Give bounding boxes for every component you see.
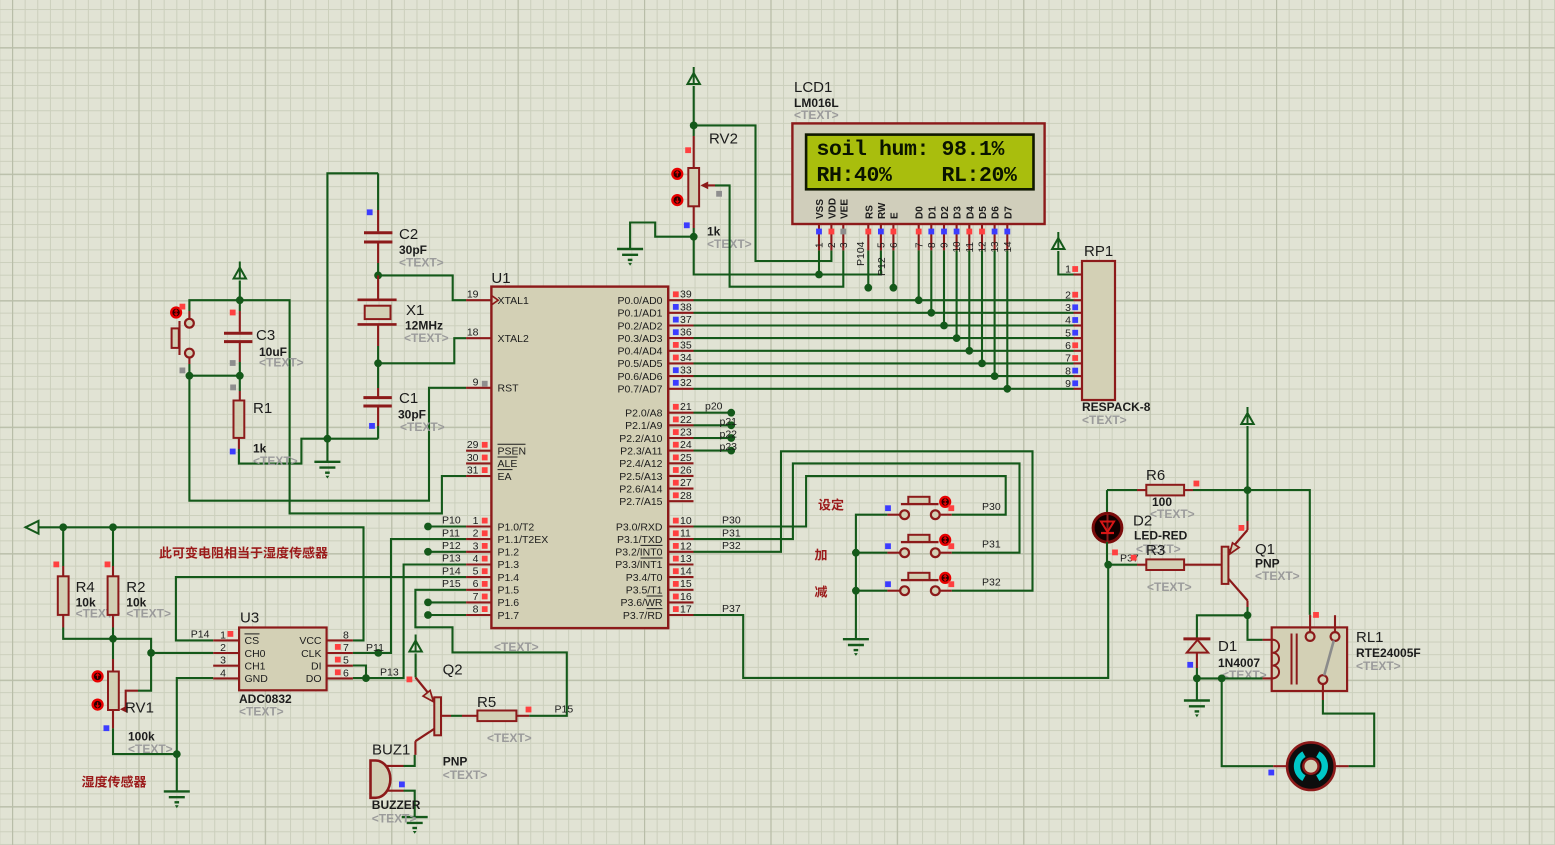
resistor R2 10k: [108, 576, 119, 615]
wire LCD D2 drop: [943, 250, 945, 325]
svg-text:X1: X1: [406, 302, 424, 319]
U1 pin 19 XTAL1: [466, 299, 491, 301]
svg-text:RS: RS: [864, 205, 875, 219]
svg-text:6: 6: [473, 578, 479, 590]
terminal: left arrow input: [26, 521, 39, 534]
U3 pin 7 CLK: [327, 652, 353, 654]
svg-text:37: 37: [680, 314, 692, 326]
RP1 pin 2: [1074, 299, 1083, 301]
svg-text:PSEN: PSEN: [498, 446, 527, 458]
svg-text:RH:40% RL:20%: RH:40% RL:20%: [817, 164, 1018, 188]
svg-text:3: 3: [220, 655, 226, 667]
junction: C3 bottom / R1 top: [236, 372, 244, 380]
svg-text:P1.5: P1.5: [498, 585, 520, 597]
svg-text:U3: U3: [240, 610, 259, 627]
svg-text:VCC: VCC: [299, 635, 322, 647]
svg-text:P0.4/AD4: P0.4/AD4: [618, 346, 663, 358]
svg-text:35: 35: [680, 339, 692, 351]
power: VCC arrow right: [1247, 407, 1249, 413]
relay contact pins: [1309, 615, 1311, 632]
svg-text:VDD: VDD: [827, 198, 838, 219]
svg-text:D2: D2: [940, 206, 951, 219]
wire LCD D0 drop: [918, 250, 920, 300]
svg-text:22: 22: [680, 414, 692, 426]
svg-text:2: 2: [827, 242, 838, 248]
U1 pin 34 P0.5/AD5: [668, 362, 693, 364]
wire RV1 bottom to ground node: [112, 710, 114, 728]
LCD pin 10 D3: [956, 224, 958, 250]
crystal X1 12MHz: [377, 275, 379, 298]
svg-text:6: 6: [343, 667, 349, 679]
junction: motor branch: [1218, 675, 1226, 683]
U1 pin 18 XTAL2: [466, 337, 491, 339]
wire P0.7 bus row: [694, 388, 1074, 390]
svg-text:P1.2: P1.2: [498, 547, 520, 559]
motor: [1273, 765, 1287, 767]
wire VSS drop: [818, 250, 820, 274]
svg-text:LCD1: LCD1: [794, 79, 832, 96]
U1 pin 26 P2.5/A13: [668, 475, 693, 477]
svg-text:38: 38: [680, 301, 692, 313]
svg-text:7: 7: [1065, 353, 1071, 365]
svg-text:DO: DO: [306, 673, 322, 685]
LCD screen: [806, 135, 1033, 190]
LCD pin 4 RS: [867, 224, 869, 250]
wire RV2 ground zigzag: [630, 223, 694, 250]
wire P1.0 stub (net P10): [428, 525, 466, 527]
U1 pin 30 ALE: [466, 462, 491, 464]
svg-text:RV2: RV2: [709, 131, 738, 148]
svg-text:<TEXT>: <TEXT>: [400, 420, 445, 434]
svg-text:RW: RW: [877, 202, 888, 219]
wire net P37: [694, 565, 1109, 678]
svg-text:4: 4: [473, 553, 479, 565]
U3 pin 4 GND: [213, 677, 239, 679]
wire VCC node down to C3: [239, 300, 241, 311]
svg-text:31: 31: [467, 465, 479, 477]
wire P0.5 bus row: [694, 362, 1074, 364]
svg-text:P30: P30: [982, 501, 1001, 513]
U1 pin 29 PSEN: [466, 450, 491, 452]
svg-text:8: 8: [343, 629, 349, 641]
svg-text:9: 9: [940, 242, 951, 248]
RP1 pin 7: [1074, 362, 1083, 364]
svg-text:P0.3/AD3: P0.3/AD3: [618, 333, 663, 345]
svg-text:5: 5: [473, 566, 479, 578]
wire D1 to coil bottom: [1197, 677, 1263, 679]
U3 pin 8 VCC: [327, 639, 353, 641]
svg-text:P32: P32: [722, 540, 741, 552]
ground: buzzer: [402, 817, 428, 828]
svg-text:P0.2/AD2: P0.2/AD2: [618, 320, 663, 332]
ground: buttons: [843, 639, 869, 650]
svg-text:12: 12: [680, 540, 692, 552]
wire net P14: U1 P1.4 to U3 CS: [176, 577, 466, 640]
svg-text:P3.0/RXD: P3.0/RXD: [616, 521, 663, 533]
svg-text:D0: D0: [915, 206, 926, 219]
transistor Q2 PNP: [416, 678, 435, 701]
label 减: [815, 585, 827, 597]
wire R2 top lead: [112, 527, 114, 566]
wire P1.2 stub (net P12): [428, 551, 466, 553]
svg-text:P13: P13: [442, 553, 461, 565]
svg-text:C2: C2: [399, 226, 418, 243]
svg-text:R6: R6: [1146, 467, 1165, 484]
svg-text:XTAL2: XTAL2: [498, 333, 529, 345]
wire net P31 loop: [694, 463, 1020, 552]
svg-text:3: 3: [1065, 302, 1071, 314]
svg-text:3: 3: [839, 242, 850, 248]
relay blade: [1324, 641, 1334, 676]
svg-text:EA: EA: [498, 471, 512, 483]
svg-text:<TEXT>: <TEXT>: [1150, 507, 1195, 521]
potentiometer RV2 1k: [693, 125, 695, 136]
svg-text:<TEXT>: <TEXT>: [1255, 569, 1300, 583]
U1 pin 23 P2.2/A10: [668, 437, 693, 439]
svg-text:P3.2/INT0: P3.2/INT0: [615, 547, 662, 559]
svg-text:5: 5: [1065, 327, 1071, 339]
wire net p23 stub: [694, 450, 732, 452]
wire collector to relay coil top: [1248, 615, 1263, 640]
svg-text:R1: R1: [253, 400, 272, 417]
svg-text:P32: P32: [982, 577, 1001, 589]
svg-text:soil hum: 98.1%: soil hum: 98.1%: [817, 138, 1005, 162]
U1 pin 3 P1.2: [466, 551, 491, 553]
adc U3 ADC0832 body: [239, 628, 327, 691]
svg-text:26: 26: [680, 464, 692, 476]
svg-text:P0.0/AD0: P0.0/AD0: [618, 295, 663, 307]
U1 pin 2 P1.1/T2EX: [466, 538, 491, 540]
svg-text:P1.3: P1.3: [498, 559, 520, 571]
LCD pin 1 VSS: [818, 224, 820, 250]
ground: D1: [1196, 678, 1198, 700]
svg-text:9: 9: [473, 376, 479, 388]
potentiometer RV1 100k: [108, 672, 119, 711]
svg-text:DI: DI: [311, 661, 322, 673]
U1 pin 27 P2.6/A14: [668, 488, 693, 490]
svg-text:RV1: RV1: [125, 700, 154, 717]
wire XTAL2: [378, 338, 466, 363]
wire LCD D5 drop: [981, 250, 983, 363]
wire VCC node to EA pin: [240, 300, 466, 513]
svg-text:R5: R5: [477, 694, 496, 711]
wire net P15: U1 P1.5 to R5: [415, 590, 566, 716]
RP1 pin 4: [1074, 324, 1083, 326]
U1 pin 5 P1.4: [466, 576, 491, 578]
svg-text:D5: D5: [978, 206, 989, 219]
svg-text:34: 34: [680, 352, 692, 364]
svg-text:P12: P12: [442, 540, 461, 552]
U1 pin 32 P0.7/AD7: [668, 388, 693, 390]
svg-text:P31: P31: [982, 539, 1001, 551]
svg-text:<TEXT>: <TEXT>: [239, 705, 284, 719]
junction: R4/R2/RV1 node: [109, 635, 117, 643]
svg-text:VSS: VSS: [815, 199, 826, 219]
svg-text:<TEXT>: <TEXT>: [399, 256, 444, 270]
svg-text:P3.6/WR: P3.6/WR: [620, 597, 662, 609]
svg-text:D4: D4: [965, 206, 976, 219]
U1 pin 33 P0.6/AD6: [668, 375, 693, 377]
wire RS stub (net P10): [867, 250, 869, 287]
junction: C2/X1/XTAL1: [374, 272, 382, 280]
svg-text:D7: D7: [1003, 206, 1014, 219]
svg-text:CH0: CH0: [245, 648, 266, 660]
svg-text:P2.3/A11: P2.3/A11: [620, 445, 663, 457]
U1 pin 31 EA: [466, 475, 491, 477]
wire buttons left commons to ground: [856, 515, 888, 553]
svg-text:P2.2/A10: P2.2/A10: [619, 433, 662, 445]
svg-text:P15: P15: [555, 704, 574, 716]
switch: push button: [887, 552, 899, 554]
svg-text:RP1: RP1: [1084, 243, 1113, 260]
wire net P30 loop: [694, 476, 1006, 526]
U1 pin 28 P2.7/A15: [668, 500, 693, 502]
wire U3 GND down: [177, 678, 213, 754]
svg-text:P1.1/T2EX: P1.1/T2EX: [498, 534, 549, 546]
junction: DI/DO tie: [362, 674, 370, 682]
svg-text:1: 1: [1065, 264, 1071, 276]
svg-text:D3: D3: [953, 206, 964, 219]
resistor R5: [462, 715, 477, 717]
svg-text:23: 23: [680, 427, 692, 439]
power: VCC arrow for Q2: [415, 635, 417, 641]
U1 pin 4 P1.3: [466, 563, 491, 565]
svg-text:P3.1/TXD: P3.1/TXD: [617, 534, 663, 546]
svg-text:R4: R4: [76, 579, 95, 596]
junction: rail/R2: [109, 523, 117, 531]
wire RV1 top lead: [112, 639, 114, 659]
wire P0.6 bus row: [694, 375, 1074, 377]
relay RL1 RTE24005F body: [1272, 627, 1347, 691]
junction: RV2 top node: [690, 122, 698, 130]
svg-text:VEE: VEE: [839, 199, 850, 219]
svg-text:D6: D6: [991, 206, 1002, 219]
svg-text:29: 29: [467, 439, 479, 451]
svg-text:P2.4/A12: P2.4/A12: [619, 458, 662, 470]
svg-text:RL1: RL1: [1356, 629, 1384, 646]
U1 pin 16 P3.6/WR: [668, 601, 693, 603]
svg-text:<TEXT>: <TEXT>: [487, 731, 532, 745]
wire LCD D1 drop: [930, 250, 932, 312]
op-amp U1 body: 8051 MCU: [491, 287, 668, 628]
U1 pin 22 P2.1/A9: [668, 424, 693, 426]
U3 pin 3 CH1: [213, 665, 239, 667]
svg-text:XTAL1: XTAL1: [498, 295, 529, 307]
LCD pin 8 D1: [930, 224, 932, 250]
svg-text:CS: CS: [245, 635, 260, 647]
LCD pin 3 VEE: [842, 224, 844, 250]
U3 pin 6 DO: [327, 677, 353, 679]
wire net P13: U3 DO to U1 P1.3: [353, 565, 466, 679]
wire P0.1 bus row: [694, 312, 1074, 314]
resistor-pack RP1 RESPACK-8 body: [1082, 261, 1115, 400]
junction: D1 anode node: [1193, 675, 1201, 683]
svg-text:<TEXT>: <TEXT>: [372, 812, 417, 826]
junction: rail/R4: [59, 523, 67, 531]
wire P0.0 bus row: [694, 299, 1074, 301]
svg-text:P1.0/T2: P1.0/T2: [498, 521, 535, 533]
svg-text:7: 7: [473, 591, 479, 603]
svg-text:32: 32: [680, 377, 692, 389]
svg-text:18: 18: [467, 327, 479, 339]
svg-text:6: 6: [1065, 340, 1071, 352]
wire collector to D1: [1197, 615, 1248, 637]
resistor R6 100: [1107, 489, 1137, 491]
wire R2 bottom: [112, 615, 114, 628]
junction: VCC right rail: [1244, 486, 1252, 494]
U1 pin 8 P1.7: [466, 614, 491, 616]
U3 pin 2 CH0: [213, 652, 239, 654]
U1 pin 13 P3.3/INT1: [668, 563, 693, 565]
svg-text:RTE24005F: RTE24005F: [1356, 646, 1421, 660]
svg-text:PNP: PNP: [443, 755, 468, 769]
LCD pin 13 D6: [994, 224, 996, 250]
svg-text:E: E: [889, 212, 900, 219]
wire VCC to relay contact: [1248, 490, 1310, 615]
svg-text:P1.4: P1.4: [498, 572, 520, 584]
svg-text:39: 39: [680, 289, 692, 301]
junction: VSS node: [815, 271, 823, 279]
LCD pin 6 E: [892, 224, 894, 250]
svg-text:21: 21: [680, 401, 692, 413]
svg-text:P14: P14: [442, 565, 461, 577]
LCD pin 9 D2: [943, 224, 945, 250]
svg-text:36: 36: [680, 327, 692, 339]
svg-text:D1: D1: [1218, 638, 1237, 655]
svg-text:12: 12: [978, 241, 989, 253]
svg-text:p22: p22: [720, 429, 738, 441]
relay coil leads: [1263, 639, 1274, 641]
svg-text:p21: p21: [720, 416, 738, 428]
wire CH0 to U3: [151, 652, 213, 654]
svg-text:7: 7: [343, 642, 349, 654]
U1 pin 36 P0.3/AD3: [668, 337, 693, 339]
LCD pin 2 VDD: [830, 224, 832, 250]
svg-text:p23: p23: [720, 441, 738, 453]
svg-text:28: 28: [680, 490, 692, 502]
svg-text:P10: P10: [442, 515, 461, 527]
svg-text:33: 33: [680, 365, 692, 377]
LCD pin 11 D4: [968, 224, 970, 250]
U1 pin 12 P3.2/INT0: [668, 551, 693, 553]
svg-text:P11: P11: [366, 642, 384, 654]
svg-text:19: 19: [467, 289, 479, 301]
transistor Q1 PNP: [1184, 564, 1222, 566]
wire net P32 loop: [694, 451, 1033, 590]
svg-text:4: 4: [1065, 315, 1071, 327]
wire P0.2 bus row: [694, 324, 1074, 326]
svg-text:<TEXT>: <TEXT>: [128, 742, 173, 756]
wire net p21 stub: [694, 424, 732, 426]
junction: X1/C1/XTAL2: [374, 359, 382, 367]
U1 pin 25 P2.4/A12: [668, 462, 693, 464]
svg-text:27: 27: [680, 477, 692, 489]
svg-text:16: 16: [680, 591, 692, 603]
wire LCD D7 drop: [1006, 250, 1008, 388]
svg-text:<TEXT>: <TEXT>: [1222, 668, 1267, 682]
svg-text:CH1: CH1: [245, 661, 266, 673]
svg-text:15: 15: [680, 578, 692, 590]
svg-text:R2: R2: [126, 579, 145, 596]
svg-text:<TEXT>: <TEXT>: [259, 356, 304, 370]
U1 pin 17 P3.7/RD: [668, 614, 693, 616]
U1 pin 21 P2.0/A8: [668, 412, 693, 414]
wire to motor left: [1222, 678, 1274, 766]
svg-text:8: 8: [473, 604, 479, 616]
junction: RV2 bottom node: [690, 233, 698, 241]
svg-text:P13: P13: [380, 667, 399, 679]
svg-text:P11: P11: [442, 527, 460, 539]
svg-text:10: 10: [952, 241, 963, 253]
wire P1.7 stub: [428, 614, 466, 616]
svg-text:P0.6/AD6: P0.6/AD6: [618, 371, 663, 383]
svg-text:P2.7/A15: P2.7/A15: [619, 496, 662, 508]
svg-text:1: 1: [220, 629, 226, 641]
U1 pin 14 P3.4/T0: [668, 576, 693, 578]
display LCD1 LM016L body: [792, 123, 1044, 224]
ground: crystal area: [326, 439, 328, 462]
svg-text:<TEXT>: <TEXT>: [404, 331, 449, 345]
svg-text:D2: D2: [1133, 513, 1152, 530]
svg-text:<TEXT>: <TEXT>: [443, 768, 488, 782]
wire VCC node to button top: [189, 300, 239, 311]
svg-text:13: 13: [990, 241, 1001, 253]
power: VCC arrow above C3: [239, 262, 241, 268]
svg-text:5: 5: [343, 655, 349, 667]
svg-text:P1.7: P1.7: [498, 610, 520, 622]
svg-text:P37: P37: [722, 603, 741, 615]
resistor R1 1k: [239, 376, 241, 391]
svg-text:5: 5: [877, 242, 888, 248]
svg-text:GND: GND: [245, 673, 269, 685]
svg-text:P30: P30: [722, 515, 741, 527]
wire P1.6 stub: [428, 601, 466, 603]
svg-text:<TEXT>: <TEXT>: [1147, 580, 1192, 594]
svg-text:Q1: Q1: [1255, 541, 1275, 558]
svg-text:2: 2: [220, 642, 226, 654]
svg-text:3: 3: [473, 540, 479, 552]
LCD pin 5 RW: [880, 224, 882, 250]
svg-text:<TEXT>: <TEXT>: [253, 454, 298, 468]
diode D1 1N4007: [1183, 637, 1210, 640]
U1 pin 39 P0.0/AD0: [668, 299, 693, 301]
svg-text:C3: C3: [256, 327, 275, 344]
capacitor C3: [224, 333, 252, 341]
svg-text:BUZZER: BUZZER: [372, 798, 421, 812]
junction: Q1 collector node: [1244, 611, 1252, 619]
svg-text:P104: P104: [855, 241, 867, 266]
svg-text:P2.1/A9: P2.1/A9: [625, 420, 663, 432]
wire LCD D3 drop: [956, 250, 958, 338]
wire XTAL1: [378, 275, 466, 300]
U1 pin 24 P2.3/A11: [668, 450, 693, 452]
U1 pin 38 P0.1/AD1: [668, 312, 693, 314]
svg-text:P14: P14: [191, 628, 210, 640]
resistor R3: [1108, 564, 1137, 566]
svg-text:P0.7/AD7: P0.7/AD7: [618, 384, 663, 396]
svg-text:<TEXT>: <TEXT>: [494, 640, 539, 654]
RP1 pin 9: [1074, 388, 1083, 390]
wire net P11: U1 P1.1 to U3 CLK: [353, 539, 466, 653]
svg-text:BUZ1: BUZ1: [372, 742, 410, 759]
svg-text:11: 11: [965, 242, 976, 253]
svg-text:C1: C1: [399, 390, 418, 407]
ground: sensor node: [176, 754, 178, 791]
svg-text:13: 13: [680, 553, 692, 565]
svg-text:P12: P12: [876, 257, 888, 276]
junction: RV1/U3 GND node: [173, 750, 181, 758]
svg-text:1: 1: [815, 242, 826, 248]
